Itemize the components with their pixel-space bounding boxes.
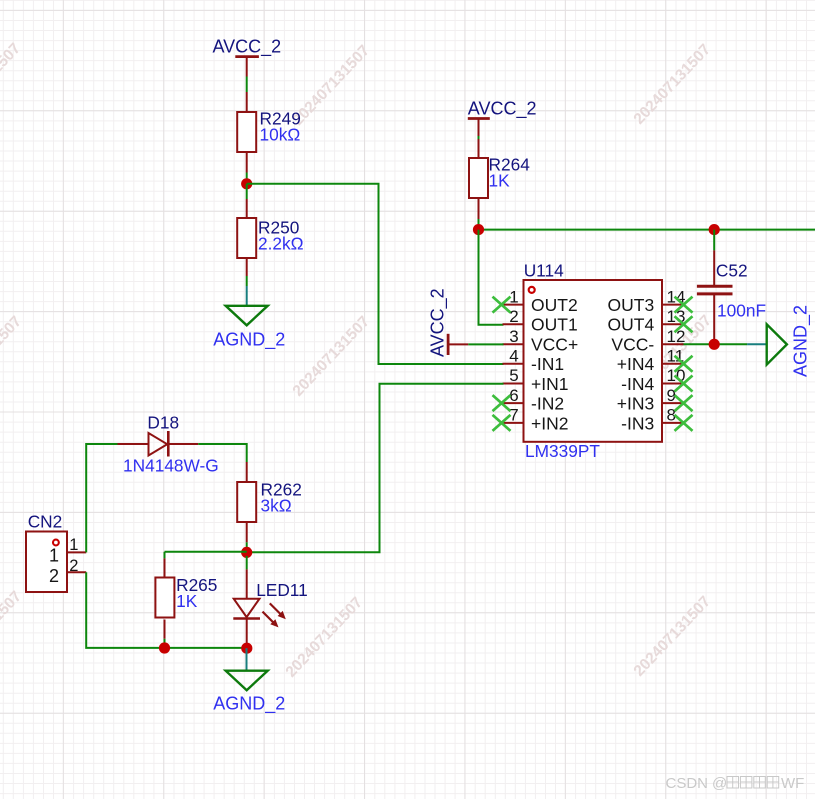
power flag AVCC_2 (pin 3 VCC+) — [427, 288, 468, 357]
svg-text:-IN2: -IN2 — [531, 394, 564, 414]
svg-text:WF: WF — [781, 775, 804, 792]
resistor R249 10k — [246, 92, 248, 173]
wire VCC- (pin 12) to ground — [683, 343, 767, 345]
svg-text:-IN4: -IN4 — [621, 374, 654, 394]
svg-text:100nF: 100nF — [717, 301, 766, 321]
svg-text:2: 2 — [509, 307, 518, 326]
wire diode cathode to R262 — [198, 444, 247, 462]
svg-text:4: 4 — [509, 347, 518, 366]
wire flag to R264 — [478, 136, 480, 140]
svg-text:2: 2 — [69, 557, 78, 575]
svg-text:-IN1: -IN1 — [531, 354, 564, 374]
svg-text:+IN1: +IN1 — [531, 374, 568, 394]
no-connect flag pin 9 — [675, 395, 693, 411]
svg-text:LED11: LED11 — [256, 580, 308, 600]
svg-text:LM339PT: LM339PT — [525, 441, 600, 461]
junction R265/bottom rail — [159, 642, 170, 653]
svg-text:AGND_2: AGND_2 — [791, 305, 812, 377]
ground AGND_2 (below R250) — [213, 306, 285, 351]
wire AVCC_2 flag to R249 — [246, 77, 248, 93]
svg-text:3: 3 — [509, 327, 518, 346]
U114 pin 13 OUT4 — [608, 307, 686, 335]
wire R249 to node — [246, 173, 248, 184]
U114 pin 8 -IN3 — [621, 406, 683, 434]
no-connect flag pin 8 — [675, 415, 693, 431]
svg-text:1K: 1K — [489, 170, 511, 190]
wire R264 to rail — [478, 219, 480, 230]
svg-text:D18: D18 — [147, 413, 179, 433]
no-connect flag pin 11 — [675, 356, 693, 372]
U114 pin 12 VCC- — [611, 327, 685, 355]
svg-text:+IN2: +IN2 — [531, 413, 568, 433]
svg-text:-IN3: -IN3 — [621, 413, 654, 433]
svg-text:OUT1: OUT1 — [531, 315, 578, 335]
op-amp U114 LM339PT body — [524, 261, 663, 461]
diode D18 1N4148W-G — [118, 413, 219, 476]
U114 pin 7 +IN2 — [503, 406, 569, 434]
wire rail to OUT1 (pin 2) — [479, 230, 504, 325]
node divider junction — [241, 178, 252, 189]
no-connect flag pin 13 — [675, 316, 693, 332]
U114 pin 14 OUT3 — [608, 287, 686, 315]
wire node to R265 — [165, 552, 247, 559]
no-connect flag pin 14 — [675, 297, 693, 313]
CN2 pin 2 — [67, 557, 86, 575]
no-connect flag pin 7 — [493, 415, 511, 431]
capacitor C52 100nF — [697, 230, 766, 345]
svg-text:AGND_2: AGND_2 — [213, 329, 285, 350]
svg-text:AVCC_2: AVCC_2 — [468, 99, 537, 120]
resistor R264 1K — [478, 139, 480, 219]
ground AGND_2 (right, flag rotated) — [767, 305, 812, 377]
svg-text:OUT3: OUT3 — [608, 295, 655, 315]
svg-text:2: 2 — [49, 566, 59, 586]
svg-text:10kΩ: 10kΩ — [260, 125, 301, 145]
svg-text:AGND_2: AGND_2 — [213, 694, 285, 715]
svg-text:1N4148W-G: 1N4148W-G — [123, 455, 219, 475]
wire +IN1 (pin 5) to R262/LED node — [247, 384, 504, 553]
svg-text:1: 1 — [49, 545, 59, 565]
junction rail/C52 — [709, 224, 720, 235]
resistor R250 2.2k — [246, 199, 248, 276]
wire R262 to node — [246, 542, 248, 552]
svg-text:CSDN: CSDN — [666, 775, 709, 792]
svg-text:2.2kΩ: 2.2kΩ — [258, 234, 304, 254]
no-connect flag pin 6 — [493, 395, 511, 411]
svg-text:C52: C52 — [716, 261, 748, 281]
U114 pin 2 OUT1 — [503, 307, 578, 335]
svg-text:+IN3: +IN3 — [617, 394, 654, 414]
wire CN2 pin1 up to diode anode — [86, 444, 117, 552]
connector CN2 — [26, 512, 67, 593]
wire node to R250 — [246, 184, 248, 199]
resistor R262 3k — [246, 462, 248, 542]
wire CN2 pin2 to bottom rail — [86, 572, 247, 648]
U114 pin 10 -IN4 — [621, 366, 685, 394]
svg-text:@: @ — [712, 775, 727, 792]
ground AGND_2 (bottom) — [213, 671, 285, 715]
junction R262/LED node — [241, 547, 252, 558]
U114 pin 11 +IN4 — [617, 347, 684, 375]
wire AVCC flag to VCC+ (pin 3) — [468, 343, 503, 345]
svg-text:1K: 1K — [176, 591, 198, 611]
no-connect flag pin 10 — [675, 376, 693, 392]
svg-text:AVCC_2: AVCC_2 — [213, 37, 282, 58]
no-connect flag pin 1 — [493, 297, 511, 313]
svg-text:VCC+: VCC+ — [531, 335, 578, 355]
U114 pin 9 +IN3 — [617, 386, 684, 414]
svg-text:1: 1 — [69, 536, 78, 554]
wire R265 to bottom rail — [164, 639, 166, 648]
U114 pin 1 OUT2 — [503, 287, 578, 315]
wire LED to ground — [246, 648, 248, 671]
power flag AVCC_2 (R264 branch) — [468, 99, 537, 138]
junction R264/rail — [473, 224, 484, 235]
U114 pin 3 VCC+ — [503, 327, 579, 355]
U114 pin 4 -IN1 — [503, 347, 565, 375]
wire R250 to ground — [246, 276, 248, 306]
wire top rail — [479, 229, 815, 231]
svg-text:AVCC_2: AVCC_2 — [427, 288, 448, 357]
U114 pin 5 +IN1 — [503, 366, 569, 394]
svg-text:U114: U114 — [524, 261, 564, 281]
svg-text:OUT2: OUT2 — [531, 295, 578, 315]
wire divider node to -IN1 (pin 4) — [247, 184, 504, 364]
svg-text:+IN4: +IN4 — [617, 354, 655, 374]
junction LED/bottom rail — [241, 643, 252, 654]
svg-text:5: 5 — [509, 366, 518, 385]
junction C52/ground wire — [709, 339, 720, 350]
svg-text:VCC-: VCC- — [611, 335, 654, 355]
svg-text:CN2: CN2 — [28, 512, 63, 532]
U114 pin 6 -IN2 — [503, 386, 565, 414]
CN2 pin 1 — [67, 536, 86, 554]
svg-text:3kΩ: 3kΩ — [261, 496, 292, 516]
svg-text:OUT4: OUT4 — [608, 315, 655, 335]
power flag AVCC_2 (top, R249 branch) — [213, 37, 282, 77]
resistor R265 1K — [164, 558, 166, 638]
LED LED11 — [233, 556, 307, 644]
